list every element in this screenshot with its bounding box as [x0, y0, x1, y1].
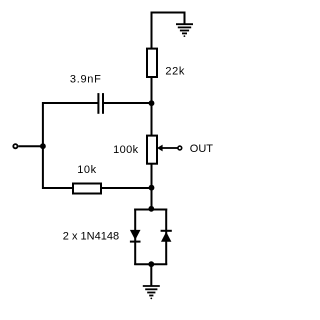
- wire left rail down to 10k: [42, 146, 73, 189]
- wire input to left rail: [18, 145, 43, 147]
- wire 10k to node B: [102, 187, 152, 189]
- label 2 x 1N4148: [63, 231, 119, 243]
- label 3.9nF: [70, 73, 102, 85]
- svg-text:22k: 22k: [165, 66, 185, 78]
- node A junction dot: [149, 100, 155, 106]
- wire node A to potentiometer: [151, 103, 153, 136]
- wire right diode branch vertical: [165, 209, 167, 266]
- terminal IN open circle: [13, 144, 17, 148]
- wire diode branch top horizontal: [134, 209, 167, 211]
- ground (top): [176, 24, 193, 37]
- terminal OUT open circle: [178, 146, 182, 150]
- label 22k: [165, 66, 185, 78]
- resistor R2 10k: [73, 184, 101, 194]
- wire node D to ground: [150, 264, 152, 286]
- label OUT: [190, 143, 214, 155]
- potentiometer R3 100k body: [147, 136, 157, 164]
- wire vertical from top to 22k: [151, 13, 153, 49]
- diode D1 (left, 1N4148, pointing down): [130, 230, 141, 243]
- potentiometer wiper arrow: [157, 145, 178, 152]
- wire ground stub vertical: [184, 12, 186, 25]
- wire left rail to capacitor: [42, 102, 98, 147]
- capacitor C1 3.9nF: [97, 93, 104, 114]
- resistor R1 22k: [147, 49, 157, 77]
- wire top horizontal from rail to ground stub: [151, 12, 185, 14]
- node D junction dot: [148, 261, 154, 267]
- wire left diode branch vertical: [134, 209, 136, 266]
- node B junction dot: [149, 185, 155, 191]
- svg-text:OUT: OUT: [190, 143, 214, 155]
- node C junction dot: [148, 206, 154, 212]
- wire potentiometer to node B: [151, 163, 153, 188]
- label 100k: [113, 144, 139, 156]
- svg-text:10k: 10k: [77, 164, 97, 176]
- wire node B to node C: [151, 188, 153, 209]
- node input junction dot: [40, 143, 46, 149]
- svg-text:3.9nF: 3.9nF: [70, 73, 102, 85]
- wire diode branch bottom horizontal: [134, 263, 167, 265]
- label 10k: [77, 164, 97, 176]
- wire capacitor to node A: [104, 102, 151, 104]
- diode D2 (right, 1N4148, pointing up): [161, 230, 172, 242]
- svg-text:100k: 100k: [113, 144, 139, 156]
- svg-text:2 x 1N4148: 2 x 1N4148: [63, 231, 119, 243]
- wire 22k to node A: [151, 77, 153, 103]
- ground (bottom): [143, 286, 160, 299]
